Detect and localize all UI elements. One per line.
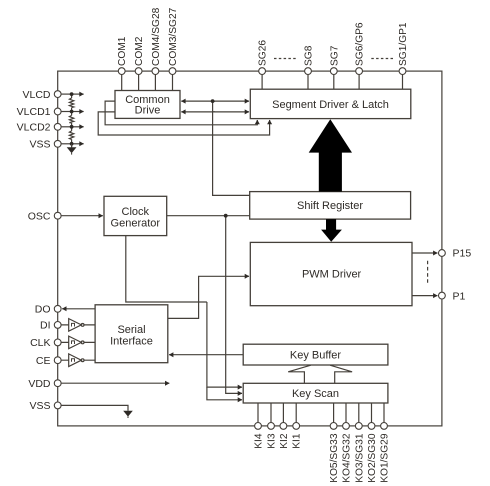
pin VSS ground wire (61, 405, 128, 410)
pin VLCD1 (54, 108, 61, 115)
svg-text:Key Buffer: Key Buffer (290, 350, 341, 362)
buffer U CLK (69, 336, 82, 349)
pin CE (54, 357, 61, 364)
pin SG26 (259, 68, 266, 75)
open block arrow Key Scan to Key Buffer (left half) (288, 365, 311, 383)
pin VLCD2 wire and arrow (61, 126, 72, 128)
buffer U DI (69, 319, 82, 332)
dashed ellipsis between SG26 and SG8 (274, 58, 296, 60)
svg-text:DI: DI (40, 320, 51, 332)
svg-text:KO5/SG33: KO5/SG33 (329, 433, 340, 483)
pin KI2 (280, 423, 287, 430)
resistor ladder vertical chain (71, 94, 73, 147)
svg-text:COM2: COM2 (134, 36, 145, 66)
ground symbol on VSS line (123, 411, 133, 417)
pin COM3/SG27 (169, 68, 176, 75)
wire Key Scan to bottom pins KO5..KO1 (334, 403, 384, 423)
svg-text:KO4/SG32: KO4/SG32 (342, 433, 353, 483)
big black arrow Shift Register to Segment Driver (309, 119, 352, 191)
pin KI3 (268, 423, 275, 430)
svg-text:Clock: Clock (122, 206, 150, 218)
wire COM pin drops into Common Drive (122, 75, 173, 91)
pin OSC wire into Clock Generator (61, 215, 103, 217)
buffer DI input wire (61, 324, 95, 326)
svg-text:KO3/SG31: KO3/SG31 (354, 433, 365, 483)
svg-text:SG7: SG7 (329, 45, 340, 66)
wire clock node down to Key Scan (middle) (226, 216, 242, 394)
pin SG8 (305, 68, 312, 75)
svg-text:VLCD1: VLCD1 (17, 106, 51, 118)
block Clock Generator (104, 196, 167, 235)
pin KI1 (293, 423, 300, 430)
wire PWM Driver output to P15 (412, 252, 437, 254)
svg-text:Serial: Serial (117, 324, 145, 336)
pin SG6/GP6 (356, 68, 363, 75)
junction node clock output (224, 214, 228, 218)
pin VSS lower (54, 402, 61, 409)
svg-text:P15: P15 (453, 248, 472, 260)
wire Key Buffer to Serial Interface (169, 354, 243, 356)
wire wrap line 2: Common Drive left to Segment Driver bottom (98, 112, 269, 135)
pin KO3/SG31 (355, 423, 362, 430)
pin KO2/SG30 (368, 423, 375, 430)
wire PWM Driver output to P1 (412, 295, 437, 297)
block Key Scan (243, 383, 388, 403)
wire Clock Generator output to Shift Register (167, 215, 250, 217)
pin KO5/SG33 (330, 423, 337, 430)
block Serial Interface (95, 305, 168, 363)
open block arrow Key Scan to Key Buffer (right half) (330, 365, 352, 383)
ground symbol below resistor ladder (71, 144, 73, 148)
wire SG pin drops into Segment Driver (262, 75, 402, 90)
resistor R between VLCD2 and VSS (69, 131, 73, 140)
wire Serial Interface to PWM Driver (168, 276, 249, 318)
wire from node A down to Shift Register (213, 101, 250, 195)
wire Clock Generator bottom down and right (126, 236, 207, 302)
svg-text:Generator: Generator (111, 218, 161, 230)
pin COM4/SG28 (152, 68, 159, 75)
pin KI4 (255, 423, 262, 430)
buffer CLK input wire (61, 341, 95, 343)
svg-text:KI3: KI3 (267, 433, 278, 449)
chip outer border (58, 71, 442, 426)
svg-text:COM3/SG27: COM3/SG27 (168, 7, 179, 66)
svg-text:PWM Driver: PWM Driver (302, 268, 362, 280)
pin OSC (54, 212, 61, 219)
wire clock branch continue to Key Scan (bottom arrow) (207, 387, 242, 400)
pin DI (54, 322, 61, 329)
wire bus Common Drive to Segment Driver lower (double arrow) (181, 111, 215, 113)
svg-text:KI1: KI1 (292, 433, 303, 449)
svg-text:SG6/GP6: SG6/GP6 (355, 22, 366, 66)
pin VDD power wire (61, 382, 169, 384)
pin VLCD wire and arrow (61, 93, 72, 95)
dashed ellipsis between P15 and P1 (427, 261, 429, 283)
resistor R between VLCD1 and VLCD2 (69, 115, 73, 123)
svg-text:KI2: KI2 (279, 433, 290, 449)
svg-text:COM4/SG28: COM4/SG28 (151, 7, 162, 66)
svg-text:CE: CE (36, 355, 51, 367)
svg-text:KO2/SG30: KO2/SG30 (367, 433, 378, 483)
svg-text:KO1/SG29: KO1/SG29 (380, 433, 391, 483)
pin KO4/SG32 (343, 423, 350, 430)
pin VSS upper (54, 140, 61, 147)
block Key Buffer (243, 344, 388, 365)
block PWM Driver (250, 242, 412, 305)
wire bus Common Drive to Segment Driver upper (double arrow) (181, 100, 215, 102)
svg-text:SG8: SG8 (304, 45, 315, 66)
svg-text:Drive: Drive (135, 105, 161, 117)
pin COM2 (135, 68, 142, 75)
svg-text:SG1/GP1: SG1/GP1 (398, 22, 409, 66)
pin SG7 (330, 68, 337, 75)
wire clock branch down to Key Scan (top arrow) (207, 302, 242, 387)
svg-text:VLCD: VLCD (22, 89, 50, 101)
pin DO (54, 305, 61, 312)
svg-text:Segment Driver & Latch: Segment Driver & Latch (272, 99, 389, 111)
buffer U CE (69, 354, 82, 367)
dashed ellipsis between SG6/GP6 and SG1/GP1 (371, 58, 393, 60)
pin SG1/GP1 (399, 68, 406, 75)
wire Key Scan to bottom pins KI4..KI1 (258, 403, 296, 423)
block Segment Driver & Latch (250, 89, 410, 118)
block Common Drive (115, 91, 180, 119)
black arrow Shift Register to PWM Driver (321, 219, 342, 242)
svg-text:KI4: KI4 (254, 433, 265, 449)
junction node A on common-segment bus (211, 99, 215, 103)
wire wrap line 1: Common Drive left to Segment Driver bottom (105, 101, 257, 125)
svg-text:COM1: COM1 (117, 36, 128, 66)
svg-text:VSS: VSS (29, 400, 50, 412)
svg-text:VSS: VSS (29, 139, 50, 151)
pin P1 (439, 292, 446, 299)
pin DO wire from Serial Interface (arrow out) (62, 308, 95, 310)
pin CLK (54, 339, 61, 346)
pin VLCD1 wire and arrow (61, 111, 72, 113)
pin VSS wire and arrow (61, 143, 72, 145)
pin VLCD2 (54, 123, 61, 130)
pin VLCD (54, 91, 61, 98)
pin P15 (439, 250, 446, 257)
svg-text:DO: DO (35, 304, 51, 316)
svg-text:Key Scan: Key Scan (292, 388, 339, 400)
svg-text:Shift Register: Shift Register (297, 200, 363, 212)
svg-text:OSC: OSC (28, 210, 51, 222)
block Shift Register (250, 192, 411, 220)
svg-text:CLK: CLK (30, 337, 50, 349)
pin COM1 (118, 68, 125, 75)
svg-text:SG26: SG26 (258, 40, 269, 66)
svg-text:VLCD2: VLCD2 (17, 122, 51, 134)
pin VDD (54, 380, 61, 387)
pin KO1/SG29 (381, 423, 388, 430)
resistor R between VLCD and VLCD1 (69, 98, 73, 108)
svg-text:VDD: VDD (28, 378, 51, 390)
buffer CE input wire (61, 359, 95, 361)
svg-text:Interface: Interface (110, 336, 153, 348)
svg-text:P1: P1 (453, 290, 466, 302)
junction dots on resistor ladder (70, 92, 74, 96)
